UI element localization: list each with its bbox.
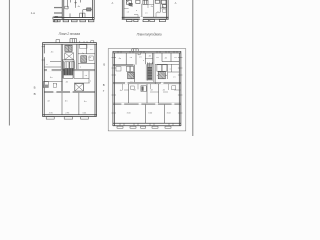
plan B stove [129, 3, 132, 5]
plan C wall2 door gaps [53, 91, 56, 93]
plan C stair treads upper [65, 61, 71, 68]
plan A bottom wall [54, 18, 95, 20]
plan C band2 right x-box [75, 83, 84, 91]
plan C band2 closet [43, 81, 62, 87]
plan D left room closet [116, 67, 121, 71]
plan C central column walls [61, 44, 78, 69]
plan D right wall [179, 51, 181, 126]
plan D chimney bay [132, 49, 138, 52]
plan D left wall [113, 51, 115, 126]
plan C top right marks [80, 41, 94, 43]
plan C hatch box 1 [65, 45, 72, 51]
plan D top wall [113, 51, 181, 53]
left fold line [8, 0, 10, 126]
plan D stair dark flight [148, 67, 152, 81]
plan C bottom band partitions [62, 93, 79, 115]
right fold line [192, 0, 194, 136]
plan B right wall [167, 0, 169, 19]
plan A (top-left, 2nd floor, cut at top) [53, 0, 95, 20]
plan C right wall [95, 43, 97, 117]
plan D footings [117, 126, 171, 128]
plan C band1 right partition [78, 63, 95, 65]
svg-text:В: В [34, 92, 36, 96]
plan C band1 right subdivision [78, 44, 95, 54]
svg-text:План 2 этажа: План 2 этажа [59, 32, 81, 36]
plan D top band partitions [126, 53, 171, 65]
plan C footings [46, 117, 88, 119]
plan C stair dark flight [64, 69, 73, 76]
plan D left closet boxes [126, 66, 133, 71]
plan A left wall [62, 0, 64, 20]
svg-text:1-в: 1-в [31, 11, 36, 15]
plan D center subdivisions [138, 53, 153, 81]
plan C bottom wall [42, 115, 96, 117]
plan D window ticks [118, 51, 177, 126]
plan D corridor walls [135, 53, 154, 82]
plan C left wall ticks [42, 47, 45, 60]
plan C top small chimney [56, 40, 60, 43]
plan C x-box [65, 53, 74, 60]
plan C left wall [43, 43, 45, 117]
plan C band1 right hatch [81, 56, 87, 63]
plan A small stoop [80, 13, 85, 18]
plan C left wall door gap [44, 53, 45, 57]
plan D right hatch box [158, 72, 165, 79]
plan C band2 corridor walls [61, 71, 62, 92]
plan B bottom wall [122, 17, 169, 19]
plan B left wall [122, 0, 124, 19]
plan C band1 top right rect [79, 45, 87, 48]
plan D right boxes [155, 64, 179, 84]
plan C band1 right small box [89, 56, 93, 60]
plan D wall3 door gaps [121, 103, 124, 105]
svg-text:В: В [103, 83, 105, 87]
plan B interior clutter [124, 5, 167, 18]
plan A plus mark [74, 1, 77, 4]
plan C band2 closet hatch [44, 85, 48, 88]
svg-text:Б: Б [103, 63, 105, 67]
plan C band2 right partitions [74, 71, 90, 83]
plan C top wall [42, 43, 96, 45]
plan C small boxes [65, 62, 75, 69]
plan D mid wall [113, 82, 181, 84]
plan C mid wall door gap [47, 69, 52, 71]
plan C (big left plan) [42, 39, 97, 117]
plan C mid wall 2 [44, 91, 95, 92]
plan D left hatch box [128, 72, 134, 79]
plan D band2 small box [141, 86, 146, 92]
plan A interior partition [83, 10, 93, 18]
plan C chimney bay [70, 39, 77, 43]
plan D stair [147, 62, 152, 80]
svg-text:А: А [175, 1, 177, 5]
svg-text:Б: Б [34, 85, 36, 89]
plan D band2 clutter [123, 84, 181, 92]
plan D top band walls [113, 62, 179, 66]
plan B top box hatch [127, 0, 132, 4]
plan D bottom wall [113, 123, 181, 126]
plan B top boxes [126, 0, 166, 7]
plan B footings [127, 20, 166, 22]
plan D wall 3 [113, 103, 181, 104]
plan D bottom band partitions [145, 105, 164, 124]
plan D mid wall door gaps [125, 82, 128, 84]
plan B interior partitions [142, 0, 160, 17]
plan B (top-right, basement, cut at top) [122, 0, 169, 19]
plan A axis ticks [54, 7, 62, 16]
plan A hatched closet [87, 8, 91, 11]
frame of plan D [108, 49, 186, 131]
svg-text:А: А [112, 1, 114, 5]
plan C stair enclosure [62, 60, 74, 79]
plan D (framed bottom-right) [113, 49, 181, 126]
plan B bottom wall door gap [140, 17, 143, 20]
plan C band2 small box [53, 83, 56, 87]
plan A shaft box [65, 6, 68, 9]
plan C band1 left partition [44, 62, 61, 67]
plan A interior stub [68, 0, 81, 18]
svg-text:План полуподвала: План полуподвала [137, 33, 162, 37]
plan C mid wall 1 [44, 69, 95, 70]
plan A porch block [53, 17, 58, 20]
plan A right wall [92, 0, 94, 20]
plan A footings [53, 20, 94, 22]
plan D band2 partitions [129, 84, 159, 103]
plan D left wall ticks [112, 58, 183, 114]
